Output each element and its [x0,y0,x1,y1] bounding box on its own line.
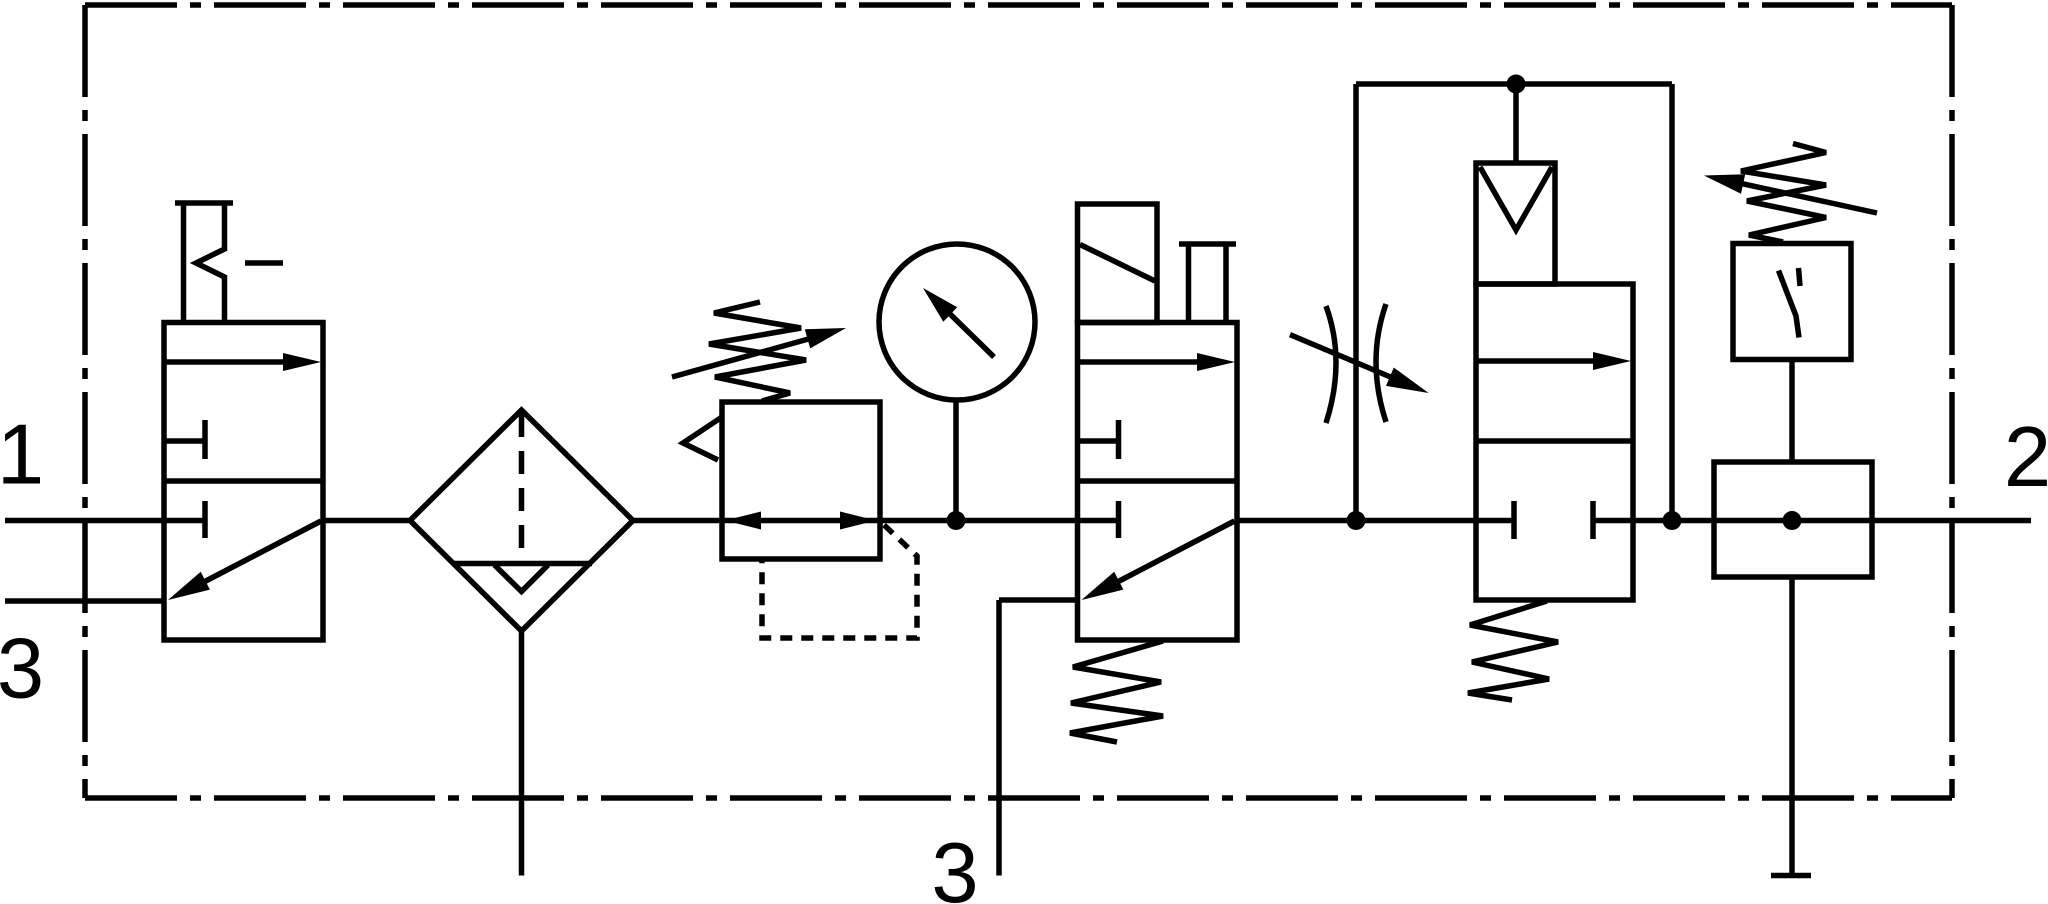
wire: valve V1 to filter [323,518,410,524]
V1 exhaust path 2-3 (rest position) [168,521,321,600]
R1 flow path arrows [725,512,876,530]
svg-text:2: 2 [2004,410,2048,505]
solenoid valve V2 body [1078,323,1238,641]
V2 blocked port (rest position) [1078,501,1119,538]
V2 flow arrow (actuated position) [1078,353,1236,371]
junction node at check valve [1507,75,1526,94]
pressure gauge G1 [879,244,1035,400]
enclosure dash-dot border [85,5,1952,798]
svg-text:3: 3 [0,622,44,717]
wire: right pilot branch [1669,84,1675,521]
R1 adjustable spring [672,302,846,401]
V1 blocked port (rest position) [164,501,205,538]
wire: port 1 inlet line [5,518,164,524]
filter drain line [519,631,525,876]
wire: pilot top line [1356,81,1672,87]
V2 exhaust path 2-3 (rest position) [1082,521,1235,600]
V3 return spring [1468,601,1558,700]
V2 blocked port (actuated position) [1078,420,1119,459]
junction node at right branch [1663,511,1682,530]
svg-text:3: 3 [931,826,978,904]
pressure switch PS1 body [1714,462,1872,577]
wire: switch body to contact box [1789,360,1795,463]
V2 pilot symbol [1179,244,1236,323]
filter with water separator F1 [410,410,633,631]
V2 return spring [1070,641,1163,742]
wire: check valve stem [1513,84,1519,163]
wire: filter to regulator to solenoid valve [633,518,1078,524]
svg-text:1: 1 [0,408,44,503]
PS1 adjustable spring [1704,144,1877,243]
wire: pressure switch drain [1771,577,1811,876]
V1 flow arrow (actuated position) [164,353,321,371]
R1 relief spring [683,417,722,460]
flow control valve FC1 [1290,304,1429,423]
junction node at flow control branch [1347,511,1366,530]
PS1 electrical contact box [1733,244,1851,360]
V1 blocked port (actuated position) [164,420,205,459]
on-off valve V1 body [164,323,323,641]
check valve C1 [1476,163,1555,284]
V3 blocked ports (rest position) [1476,501,1633,539]
wire: port 3 exhaust line (left) [5,598,164,604]
junction node at pressure switch [1783,511,1802,530]
soft-start valve V3 body [1476,284,1633,600]
wire: V2 exhaust to port 3 (bottom) [999,600,1078,876]
wire: solenoid valve to soft-start valve [1237,518,1476,524]
V2 solenoid coil [1078,204,1158,323]
pressure regulator R1 body [722,402,880,559]
junction node at gauge [947,511,966,530]
wire: flow control branch riser [1353,84,1359,521]
R1 pilot feedback dashed line [762,525,917,638]
V3 flow arrow (actuated position) [1476,352,1631,370]
gauge stem [953,400,959,521]
wire: soft-start valve to port 2 outlet [1633,518,2031,524]
V1 manual detent actuator [175,203,283,323]
